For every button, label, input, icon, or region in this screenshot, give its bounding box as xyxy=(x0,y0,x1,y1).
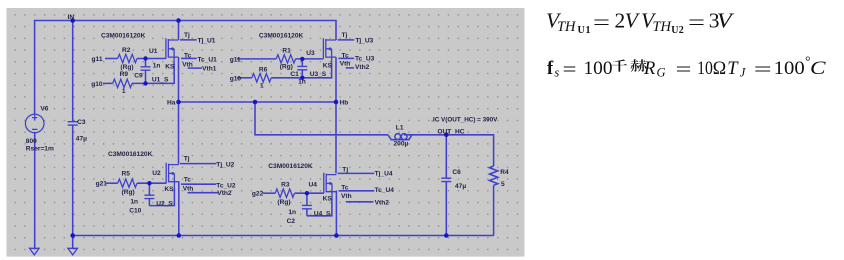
svg-text:Tj_U2: Tj_U2 xyxy=(216,161,234,168)
wire: R3 to U4 gate xyxy=(295,192,324,194)
node OUT_HC dot xyxy=(444,133,449,138)
wire: g11 to R1 xyxy=(237,58,276,60)
wire: Tc pin U2 xyxy=(181,183,216,185)
ground (V6) xyxy=(30,248,40,255)
svg-text:U1: U1 xyxy=(578,25,591,36)
svg-text:U3_S: U3_S xyxy=(310,71,327,78)
svg-text:Vth: Vth xyxy=(182,61,193,68)
svg-text:47µ: 47µ xyxy=(455,183,466,190)
svg-text:R6: R6 xyxy=(259,66,268,73)
wire: g10 to R6 xyxy=(237,77,252,79)
node U3 ks dot xyxy=(300,76,304,80)
svg-text:200µ: 200µ xyxy=(394,140,409,147)
wire: C3 column from IN node down to cap xyxy=(72,21,74,122)
svg-text:Hb: Hb xyxy=(340,99,349,106)
svg-text:KS: KS xyxy=(164,186,174,193)
wire: U1 drain from top rail xyxy=(178,21,180,41)
node Hb dot xyxy=(334,100,339,105)
node IN dot xyxy=(70,18,75,23)
svg-text:g10: g10 xyxy=(91,81,103,88)
svg-text:=: = xyxy=(688,10,705,34)
svg-text:Ha: Ha xyxy=(167,99,176,106)
svg-text:Vth1: Vth1 xyxy=(202,66,217,73)
wire: Tj pin U3 xyxy=(338,39,355,41)
svg-text:Tc: Tc xyxy=(341,184,349,191)
svg-text:Tj_U4: Tj_U4 xyxy=(375,171,393,178)
svg-text:R3: R3 xyxy=(281,182,290,189)
svg-text:Vth2: Vth2 xyxy=(355,64,370,71)
svg-text:=: = xyxy=(563,60,577,80)
svg-text:Tj: Tj xyxy=(342,32,348,39)
svg-text:C3: C3 xyxy=(77,119,86,126)
hanzi he xyxy=(631,59,647,72)
svg-text:g10: g10 xyxy=(230,75,242,82)
node U1 ks dot xyxy=(143,81,147,85)
svg-text:1n: 1n xyxy=(130,198,138,205)
svg-text:(Rg): (Rg) xyxy=(122,189,135,196)
wire: R2 to U1 gate xyxy=(137,58,166,60)
node U1 drain dot xyxy=(176,18,181,23)
node rail-left dot xyxy=(70,233,75,238)
svg-text:800: 800 xyxy=(26,138,37,145)
resistor R9 xyxy=(113,79,132,87)
wire: C6 bottom to rail xyxy=(445,182,447,236)
svg-text:(Rg): (Rg) xyxy=(277,199,290,206)
svg-text:1n: 1n xyxy=(153,63,161,70)
svg-text:Tc_U1: Tc_U1 xyxy=(198,56,218,63)
svg-text:J: J xyxy=(740,66,747,80)
svg-text:1n: 1n xyxy=(298,79,306,86)
svg-text:R2: R2 xyxy=(122,47,131,54)
wire: C2 to KS loop U4 xyxy=(307,198,332,216)
wire: g21 to R5 xyxy=(106,182,118,184)
svg-text:1: 1 xyxy=(260,82,264,89)
capacitor C10 xyxy=(148,183,150,195)
svg-text:Tc: Tc xyxy=(342,52,350,59)
transistor U3 xyxy=(323,38,336,63)
node U3 gate dot xyxy=(300,57,304,61)
svg-text:G: G xyxy=(657,66,666,80)
wire: Ha rail to Hb xyxy=(179,101,337,103)
node rail U2 dot xyxy=(177,233,182,238)
capacitor C3 xyxy=(68,122,78,125)
svg-text:(Rg): (Rg) xyxy=(280,64,293,71)
svg-text:KS: KS xyxy=(323,196,333,203)
svg-text:Tj: Tj xyxy=(184,32,190,39)
node switch tap dot xyxy=(253,100,258,105)
node U4 gate dot xyxy=(305,191,309,195)
transistor U2 xyxy=(166,163,179,188)
svg-text:KS: KS xyxy=(165,63,175,70)
svg-text:C9: C9 xyxy=(134,73,143,80)
wire: rail stub to ground symbol xyxy=(72,236,74,249)
wire: switch-node tap down to output line xyxy=(255,102,388,135)
transistor U4 xyxy=(324,173,337,198)
node Ha dot xyxy=(176,100,181,105)
svg-text:Tj_U3: Tj_U3 xyxy=(355,38,373,45)
capacitor C9 xyxy=(145,59,147,67)
svg-text:R: R xyxy=(643,59,655,79)
capacitor C6 xyxy=(441,178,451,181)
svg-text:KS: KS xyxy=(323,62,333,69)
svg-text:T: T xyxy=(727,59,739,79)
svg-text:.IC V(OUT_HC) = 390V: .IC V(OUT_HC) = 390V xyxy=(431,116,498,123)
svg-text:C2: C2 xyxy=(287,218,296,225)
capacitor C1 xyxy=(301,59,303,67)
svg-text:C: C xyxy=(810,59,826,79)
svg-text:100: 100 xyxy=(774,59,805,79)
svg-text:(Rg): (Rg) xyxy=(120,64,133,71)
grid dots xyxy=(8,10,523,256)
svg-text:V6: V6 xyxy=(40,106,48,113)
wire: R1 to U3 gate xyxy=(296,58,324,60)
svg-text:Tc: Tc xyxy=(184,52,192,59)
wire: g10 to R9 xyxy=(103,82,113,84)
inductor L1 xyxy=(388,134,412,140)
node rail U4 dot xyxy=(334,233,339,238)
wire: Tj pin U4 xyxy=(338,172,375,174)
svg-text:Tc_U4: Tc_U4 xyxy=(375,187,395,194)
svg-text:C6: C6 xyxy=(452,169,461,176)
wire: Vth pin U1 xyxy=(188,67,202,69)
capacitor C2 xyxy=(306,193,308,205)
wire: U3 source down to Hb xyxy=(335,57,337,102)
wire: C3 bottom to ground rail xyxy=(72,125,74,235)
svg-text:s: s xyxy=(554,66,559,80)
svg-text:2: 2 xyxy=(615,9,626,33)
svg-text:f: f xyxy=(547,59,554,79)
svg-text:C10: C10 xyxy=(129,207,141,214)
wire: top rail IN xyxy=(35,21,336,115)
wire: U2 source to bottom rail xyxy=(178,181,180,235)
wire: Tc pin U4 xyxy=(339,190,375,192)
svg-text:U2: U2 xyxy=(671,25,684,36)
svg-text:R5: R5 xyxy=(122,171,131,178)
wire: OUT_HC down to C6 xyxy=(445,135,447,178)
resistor R6 xyxy=(252,74,271,82)
svg-text:C3M0016120K: C3M0016120K xyxy=(108,151,153,158)
svg-text:TH: TH xyxy=(653,19,673,35)
resistor R1 xyxy=(276,55,295,63)
svg-text:10: 10 xyxy=(697,59,713,79)
svg-text:Vth: Vth xyxy=(341,193,352,200)
wire: R5 to U2 gate xyxy=(137,182,166,184)
svg-text:Tj: Tj xyxy=(184,156,190,163)
svg-text:=: = xyxy=(593,10,610,34)
wire: U1 source down to Ha xyxy=(178,57,180,102)
wire: R4 bottom to rail corner xyxy=(493,185,495,235)
svg-text:U1: U1 xyxy=(149,48,158,55)
wire: Hb to U4 drain xyxy=(335,102,337,173)
svg-text:5: 5 xyxy=(501,181,505,188)
voltage source V6 xyxy=(25,114,44,133)
svg-text:Tc_U3: Tc_U3 xyxy=(355,55,375,62)
wire: Vth pin U2 xyxy=(188,192,219,194)
svg-text:U2_S: U2_S xyxy=(156,201,173,208)
wire: Vth pin U4 xyxy=(346,201,374,203)
wire: g11 to R2 xyxy=(105,58,118,60)
svg-text:IN: IN xyxy=(68,14,75,21)
svg-text:Ω: Ω xyxy=(713,59,726,79)
svg-text:R9: R9 xyxy=(120,71,129,78)
resistor R4 (vertical) xyxy=(489,166,497,185)
resistor R5 xyxy=(118,179,137,187)
svg-text:Vth2: Vth2 xyxy=(375,200,390,207)
svg-text:U3: U3 xyxy=(306,50,315,57)
svg-text:1n: 1n xyxy=(288,209,296,216)
svg-text:=: = xyxy=(754,60,772,80)
svg-text:TH: TH xyxy=(557,19,577,35)
wire: C10 to KS loop U2 xyxy=(149,188,174,206)
svg-text:V: V xyxy=(625,9,641,33)
svg-text:Vth2: Vth2 xyxy=(217,190,232,197)
wire: Tj pin U1 xyxy=(180,39,197,41)
svg-text:=: = xyxy=(676,60,692,80)
wire: R6 to KS loop xyxy=(271,63,331,78)
svg-text:100: 100 xyxy=(584,59,613,79)
svg-text:Vth: Vth xyxy=(340,60,351,67)
svg-text:g11: g11 xyxy=(92,56,103,63)
svg-text:C1: C1 xyxy=(290,71,299,78)
wire: Ha to U2 drain xyxy=(178,102,180,164)
svg-text:Tj_U1: Tj_U1 xyxy=(198,38,216,45)
wire: V6 bottom to ground xyxy=(34,133,36,249)
ground (rail) xyxy=(68,248,78,255)
svg-text:OUT_HC: OUT_HC xyxy=(437,128,464,135)
svg-text:g11: g11 xyxy=(230,57,241,64)
wire: Vth pin U3 xyxy=(346,67,354,69)
resistor R3 xyxy=(275,189,294,197)
svg-text:g22: g22 xyxy=(252,191,264,198)
svg-text:Tj: Tj xyxy=(342,167,348,174)
svg-text:Tc: Tc xyxy=(184,177,192,184)
svg-text:47µ: 47µ xyxy=(76,135,87,142)
svg-text:C3M0016120K: C3M0016120K xyxy=(259,32,304,39)
wire: L1 to OUT_HC and to R4 xyxy=(404,135,494,166)
wire: g22 to R3 xyxy=(263,192,275,194)
svg-text:Vth: Vth xyxy=(183,185,194,192)
svg-text:Tc_U2: Tc_U2 xyxy=(216,182,236,189)
svg-text:g21: g21 xyxy=(96,180,108,187)
resistor R2 xyxy=(118,54,137,62)
svg-text:1: 1 xyxy=(122,88,126,95)
wire: R9 to KS loop xyxy=(132,63,174,83)
hanzi qian xyxy=(612,59,627,71)
wire: U4 source to bottom rail xyxy=(335,191,337,236)
svg-text:L1: L1 xyxy=(396,125,404,132)
transistor U1 xyxy=(166,38,179,63)
svg-text:C3M0016120K: C3M0016120K xyxy=(101,33,146,40)
svg-text:U4: U4 xyxy=(309,182,318,189)
svg-text:C3M0016120K: C3M0016120K xyxy=(268,163,313,170)
svg-text:U1_S: U1_S xyxy=(152,76,169,83)
node rail C6 dot xyxy=(444,233,449,238)
wire: Tc pin U3 xyxy=(339,57,355,59)
svg-text:Rser=1m: Rser=1m xyxy=(26,145,54,152)
svg-text:V: V xyxy=(717,9,735,33)
svg-text:U2: U2 xyxy=(152,170,161,177)
svg-text:R4: R4 xyxy=(500,169,509,176)
svg-text:R1: R1 xyxy=(282,47,291,54)
svg-text:U4_S: U4_S xyxy=(314,211,331,218)
wire: Tj pin U2 xyxy=(180,163,216,165)
schematic panel background xyxy=(7,8,525,257)
node U1 gate dot xyxy=(143,56,147,60)
wire: bottom ground rail xyxy=(73,235,494,237)
node U2 gate dot xyxy=(147,181,151,185)
wire: Tc pin U1 xyxy=(181,57,197,59)
